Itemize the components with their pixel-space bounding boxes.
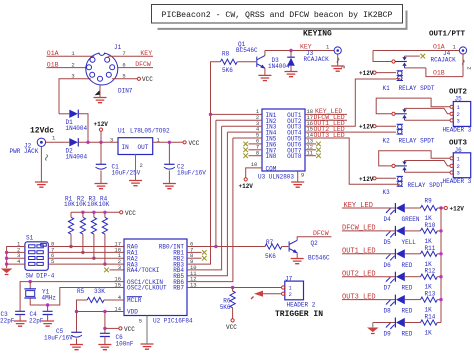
svg-text:R12: R12 [425,268,436,275]
wire IN3 stub [222,125,262,127]
svg-text:RED: RED [402,308,413,315]
svg-text:1K: 1K [425,330,433,337]
resistor R11 1K [421,245,438,268]
svg-text:J1: J1 [114,44,122,51]
wire R11 to rail [437,253,441,255]
node DFCW_LED out [305,114,347,121]
node VCC pullups [120,210,137,217]
no-connect RA4 [104,268,109,273]
svg-text:5K6: 5K6 [222,67,233,74]
node VCC at R6 [226,319,237,331]
svg-text:VCC: VCC [125,210,136,217]
wire OSC1 [20,282,124,311]
wire COM to +12V [246,168,262,178]
svg-text:KEY_LED: KEY_LED [344,202,373,210]
diode D2 1N4004 [66,138,88,160]
connector J6 HEADER 3 [443,147,472,185]
svg-text:OUT: OUT [138,144,149,151]
svg-text:4MHz: 4MHz [42,295,57,302]
LED D8 RED [384,295,413,315]
junction R6 [231,286,234,289]
svg-text:PWR JACK: PWR JACK [10,148,39,155]
wire DIN pin3 to D1 [59,79,91,114]
svg-text:K1: K1 [383,85,391,92]
wire C2 drop [168,142,170,164]
wire IN8 stub [249,155,263,157]
svg-text:U2 PIC16F84: U2 PIC16F84 [153,318,193,325]
wire K1 coil bottom [396,78,400,80]
wire K1 NC stub [405,55,420,57]
connector J4 RCAJACK [431,47,473,70]
svg-text:OUT1/PTT: OUT1/PTT [429,31,466,39]
svg-text:O1A: O1A [433,43,445,50]
wire bus RB0 to IN2 [215,120,217,246]
ground C4 [41,321,54,326]
junction RB0 [214,245,217,248]
svg-text:S1: S1 [26,235,34,242]
svg-text:D9: D9 [384,331,392,338]
junction rail row1 [439,206,442,209]
wire KEY line [265,50,334,52]
no-connect OUT7 [316,148,321,153]
wire R8 riser [211,62,221,115]
relay K2 common [376,98,450,115]
node VCC at J1 pin5 [112,76,153,83]
junction D3 [289,49,292,52]
svg-text:+12V: +12V [94,121,109,128]
svg-text:D7: D7 [384,285,392,292]
capacitor C4 22pF [29,311,53,325]
wire K3 contact up to pin2 [405,161,450,166]
ground PIC [141,344,154,349]
IC U2 PIC16F84 [124,239,193,325]
svg-text:SW DIP-4: SW DIP-4 [26,273,55,280]
wire RB2 stub [187,257,202,259]
connector J2 PWR JACK [10,138,48,160]
wire C1 drop [100,142,102,164]
svg-text:DFCW: DFCW [135,61,151,68]
svg-text:D4: D4 [384,216,392,223]
connector J5 HEADER 3 [443,96,472,134]
wire MCLR [77,300,125,312]
svg-text:OUT3_LED: OUT3_LED [314,132,345,139]
svg-text:OSC2/CLKOUT: OSC2/CLKOUT [127,285,167,292]
LED D4 GREEN [384,203,420,223]
wire C2 to ground [168,171,170,184]
resistor R9 1K [421,198,438,223]
junction S1 common 3 [5,257,8,260]
junction R3 top [92,211,95,214]
wire D2 out along rail to U1 [78,141,118,143]
svg-text:DIN7: DIN7 [118,88,133,95]
relay K2 coil [397,124,403,134]
svg-text:+12V: +12V [359,124,374,131]
svg-text:5: 5 [139,318,142,325]
ground J2 [35,182,48,187]
svg-text:D6: D6 [384,262,392,269]
svg-text:+12V: +12V [359,70,374,77]
svg-text:10K: 10K [64,201,75,208]
svg-text:VCC: VCC [189,140,200,147]
diode D1 1N4004 [66,110,88,132]
node DFCW [118,61,153,68]
wire ground stem D9 [372,323,374,328]
ground C2 [163,184,176,189]
no-connect IN7 [243,148,248,153]
node KEY_LED out [305,108,347,115]
resistor R5 33K [77,288,105,303]
junction rail row2 [439,229,442,232]
crystal Y1 4MHz [24,289,56,302]
LED D9 RED [384,318,413,338]
node +12V K1 [359,70,396,77]
resistor R14 1K [421,314,438,337]
svg-text:YELL: YELL [402,239,417,246]
wire RB1 stub [187,251,202,253]
svg-text:10K: 10K [99,201,110,208]
wire R7 to Q2 base [282,246,289,248]
wire RA0 [48,246,124,248]
wire OUT2_LED to K2 coil [347,131,396,133]
svg-text:RCAJACK: RCAJACK [304,56,330,63]
svg-text:K2: K2 [383,138,391,145]
wire RA4 stub [110,269,125,271]
relay K1 common [373,51,395,64]
junction S1 common 2 [5,251,8,254]
svg-text:KEY: KEY [140,50,152,57]
junction R4 bottom [103,262,106,265]
svg-text:10uF/16V: 10uF/16V [44,335,73,342]
svg-text:O1B: O1B [433,69,445,76]
resistor R4 10K [99,195,110,264]
wire IN2 stub [216,119,262,121]
wire J4 sleeve [462,54,464,77]
resistor R7 5K6 [265,239,282,260]
junction R5/C5 [75,310,78,313]
relay K3 contacts [395,161,407,173]
wire R14 to rail [437,322,441,324]
junction crystal top [29,280,32,283]
svg-text:10K: 10K [87,201,98,208]
wire OUT7 stub [305,149,316,151]
node +12V at COM [239,178,254,190]
no-connect IN8 [243,153,248,158]
wire J1 shield to ground [99,85,101,97]
wire D9 anode from ground [373,322,396,324]
transistor Q1 BC546C [236,41,265,69]
junction R2 bottom [81,251,84,254]
capacitor C1 10uF/25V [96,164,141,177]
wire J7 pin2 to ground [263,293,281,295]
title block shadow [158,11,407,29]
wire IN5 stub [233,137,262,139]
wire K2 contact up to pin2 [405,108,450,113]
svg-text:10K: 10K [76,201,87,208]
ground C3 [14,321,27,326]
wire U1 pin2 to ground [135,155,137,181]
svg-text:9: 9 [301,172,304,179]
svg-text:2: 2 [289,291,292,298]
no-connect RB2 [202,256,207,261]
no-connect IN6 [243,142,248,147]
svg-text:1N4004: 1N4004 [66,125,88,132]
node VCC regulator output [183,140,200,147]
svg-text:KEYING: KEYING [303,30,332,39]
svg-text:RELAY SPDT: RELAY SPDT [399,85,435,92]
svg-text:BC546C: BC546C [236,47,258,54]
svg-text:R10: R10 [425,222,436,229]
wire IN4 stub [227,131,262,133]
svg-text:VCC: VCC [142,76,153,83]
wire RA1 [48,251,124,253]
node +12V terminal [94,121,109,142]
wire IN7 stub [249,149,263,151]
LED D5 YELL [384,226,417,246]
switch S1 SW DIP-4 [25,235,55,280]
svg-text:OUT2_LED: OUT2_LED [342,271,376,279]
node O1A [47,50,95,57]
svg-text:R8: R8 [222,51,230,58]
wire bus RB3 to IN1 [187,114,211,264]
svg-text:MCLR: MCLR [127,297,142,304]
capacitor C3 22pF [0,311,25,325]
svg-text:12Vdc: 12Vdc [30,127,54,136]
arrow marker [95,90,100,95]
junction R2 top [81,211,84,214]
junction C2 [168,141,171,144]
wire Q1 emitter to ground [264,68,266,75]
svg-text:IN8: IN8 [266,153,277,160]
svg-text:3: 3 [457,170,460,177]
svg-text:2: 2 [71,61,74,68]
junction R4 top [103,211,106,214]
svg-text:3: 3 [110,137,113,144]
junction C4 [46,303,49,306]
junction D1/D2 [86,141,89,144]
LED D7 RED [384,272,413,292]
wire pin9 to ground [297,171,299,182]
svg-text:RA4/TOCKI: RA4/TOCKI [127,267,159,274]
svg-text:33K: 33K [94,288,105,295]
svg-text:VCC: VCC [124,326,135,333]
ground C1 [95,184,108,189]
wire RB7 row [187,287,283,289]
node +12V K2 [359,124,396,131]
wire VDD [77,311,125,313]
wire D3 to ground [290,66,292,71]
relay K1 coil [397,71,403,81]
svg-text:U1: U1 [118,128,126,135]
wire R8 to Q1 base [237,61,256,63]
svg-text:3: 3 [71,73,74,80]
svg-text:OUT1_LED: OUT1_LED [342,248,376,256]
wire C1 to ground [100,171,102,184]
svg-text:U3 ULN2803: U3 ULN2803 [258,174,294,181]
transistor Q2 BC546C [289,240,330,262]
svg-text:RELAY SPDT: RELAY SPDT [408,182,444,189]
wire J3 sleeve to ground [337,54,339,65]
resistor R6 5K6 [220,288,236,319]
svg-text:+12V: +12V [450,206,465,213]
junction rail row3 [439,252,442,255]
svg-text:DFCW_LED: DFCW_LED [342,225,376,233]
ground J1 [94,98,107,103]
wire +12V rail [440,208,442,323]
ground C5 [70,345,83,350]
junction IN1/R8 [209,113,212,116]
svg-text:DFCW: DFCW [313,230,329,237]
ground U1 [129,181,142,186]
svg-text:1N4004: 1N4004 [268,63,290,70]
svg-text:OUT8: OUT8 [287,153,302,160]
resistor R8 5K6 [220,51,237,75]
ground Q2 [291,259,304,264]
node KEY [108,50,153,57]
svg-text:D8: D8 [384,308,392,315]
wire D4 to R9 [405,207,421,209]
wire D6 to R11 [405,253,421,255]
junction +12V/C1 [99,141,102,144]
node OUT1_LED out [305,120,347,127]
wire S1 commons [7,247,25,269]
wire J2 sleeve to ground [40,147,42,182]
svg-text:RCAJACK: RCAJACK [431,57,457,64]
node OUT2_LED out [305,126,347,133]
svg-text:RED: RED [402,331,413,338]
svg-text:TRIGGER IN: TRIGGER IN [275,310,323,319]
wire C5 to ground [76,339,78,345]
svg-text:OUT3_LED: OUT3_LED [342,293,376,301]
wire J2 to D2 [46,141,70,143]
wire Q2 emitter to ground [296,253,298,258]
relay K1 contacts [395,56,407,68]
no-connect K1 [421,54,426,59]
relay K3 coil [397,176,403,186]
title block [152,5,403,24]
capacitor C5 10uF/16V [44,328,82,342]
wire OUT6 stub [305,143,316,145]
node O1B [47,61,86,68]
wire Q2 collector to DFCW [297,237,331,241]
wire bus RB4 to IN3 [187,126,222,270]
wire OUT1_LED to K1 coil [347,79,396,126]
wire D8 to R13 [405,299,421,301]
node OUT3_LED wire [342,293,395,301]
wire bus RB5 to IN4 [187,132,227,276]
wire K3 coil bottom [396,183,400,185]
ground J3 [331,66,344,71]
LED D6 RED [384,249,413,269]
svg-text:10uF/25V: 10uF/25V [112,170,141,177]
svg-text:R11: R11 [425,245,436,252]
svg-text:10uF/16V: 10uF/16V [177,170,206,177]
no-connect OUT8 [316,153,321,158]
resistor R10 1K [421,222,438,245]
diode D3 1N4004 [268,51,295,71]
resistor R3 10K [87,195,98,258]
wire RA2 [48,257,124,259]
resistor R2 10K [76,195,87,252]
svg-text:Q2: Q2 [311,240,319,247]
svg-text:COM: COM [266,165,277,172]
svg-text:10: 10 [251,161,258,168]
junction R1 bottom [69,245,72,248]
wire U1 out to VCC [153,141,183,143]
wire K1 NO to O1B [405,67,426,69]
wire IN6 stub [249,143,263,145]
svg-text:+12V: +12V [239,183,254,190]
wire C4 to ground [47,315,49,321]
svg-text:5K6: 5K6 [220,304,231,311]
node KEY_LED wire [342,202,395,210]
relay K3 common [379,151,450,168]
resistor R1 10K [64,195,75,246]
wire PIC pin5 to ground [146,316,148,344]
wire C3 to ground [19,315,21,321]
junction rail row4 [439,275,442,278]
wire C6 drop [104,312,106,334]
svg-text:R5: R5 [77,288,85,295]
wire D5 to R10 [405,230,421,232]
capacitor C2 10uF/16V [164,164,206,177]
svg-text:K3: K3 [383,189,391,196]
svg-text:2: 2 [140,162,143,169]
connector J1 DIN7 [86,44,133,95]
wire OUT3_LED to K3 coil [347,138,396,184]
svg-text:GREEN: GREEN [402,216,420,223]
node +12V LED rail [441,206,464,213]
junction VCC tap [103,327,106,330]
node O1B wire [426,68,463,77]
ground C6 [98,345,111,350]
node DFCW_LED wire [342,225,395,233]
node OUT1_LED wire [342,248,395,256]
resistor R12 1K [421,268,438,291]
wire K2 contact down to pin3 [405,119,450,121]
node VCC at C6 [105,326,135,333]
wire D1 left [59,113,69,115]
wire crystal top stub [29,282,31,289]
wire R12 to rail [437,276,441,278]
junction C6 [103,310,106,313]
relay K2 contacts [395,108,407,120]
node OUT3_LED out [305,132,347,139]
wire OUT8 stub [305,155,316,157]
svg-text:RELAY SPDT: RELAY SPDT [399,138,435,145]
no-connect OUT6 [316,142,321,147]
wire crystal bottom to OSC2 [30,288,124,306]
node +12V K3 [359,176,396,183]
svg-text:RED: RED [402,285,413,292]
wire D9 to R14 [405,322,421,324]
IC U3 ULN2803 [258,109,305,181]
wire C6 to ground [104,337,106,345]
wire D7 to R12 [405,276,421,278]
svg-text:R13: R13 [425,291,436,298]
svg-text:HEADER 3: HEADER 3 [443,127,472,134]
wire bus RB6 to IN5 [187,138,233,282]
regulator U1 L78L05/TO92 [118,128,170,155]
wire RA3 [48,263,124,265]
node O1A wire [373,43,459,50]
svg-text:RED: RED [402,262,413,269]
connector J7 HEADER 2 [282,275,316,308]
wire K3 contact down to pin3 [405,171,450,173]
node OUT2_LED wire [342,271,395,279]
svg-text:HEADER 2: HEADER 2 [287,302,316,309]
ground U3 [291,182,304,187]
junction S1 common 4 [5,262,8,265]
